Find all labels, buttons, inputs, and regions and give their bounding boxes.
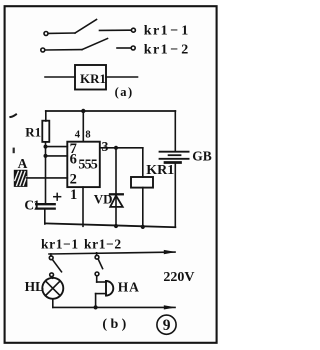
wire A to pin 2 bbox=[27, 177, 68, 179]
svg-text:(b): (b) bbox=[102, 317, 129, 332]
svg-text:8: 8 bbox=[85, 129, 90, 140]
wire pin 3 bbox=[100, 147, 143, 149]
resistor R1 bbox=[42, 111, 49, 204]
svg-text:6: 6 bbox=[70, 151, 77, 167]
svg-text:−1: −1 bbox=[170, 24, 191, 39]
top supply rail bbox=[46, 110, 176, 112]
figure number 9 circled bbox=[157, 315, 176, 334]
scan speck marks on left edge bbox=[10, 114, 16, 153]
junction dot bell/neutral bbox=[94, 305, 98, 309]
diode VD bbox=[110, 148, 123, 227]
bell HA bbox=[96, 281, 114, 307]
junction dot top rail / pin4-8 bbox=[81, 109, 85, 113]
op-amp/timer IC 555 box bbox=[67, 142, 100, 187]
svg-text:C1: C1 bbox=[24, 198, 40, 213]
svg-text:kr1: kr1 bbox=[144, 43, 169, 58]
svg-text:3: 3 bbox=[102, 139, 109, 154]
wire pins 4,8 to top rail bbox=[82, 111, 84, 142]
touch plate A bbox=[15, 171, 27, 187]
wire to pin 7 bbox=[46, 146, 68, 148]
wire to pin 6 bbox=[46, 155, 68, 157]
switch contact kr1-2 (section a) bbox=[41, 39, 135, 53]
svg-text:kr1−1: kr1−1 bbox=[41, 237, 79, 252]
svg-text:KR1: KR1 bbox=[80, 71, 106, 86]
lamp HL bbox=[42, 278, 63, 308]
svg-text:kr1−2: kr1−2 bbox=[84, 237, 122, 252]
svg-text:kr1: kr1 bbox=[144, 24, 169, 39]
capacitor C1 bbox=[36, 204, 55, 224]
svg-text:A: A bbox=[18, 156, 28, 171]
bottom rail bbox=[45, 223, 175, 227]
border frame bbox=[5, 6, 217, 343]
junction node pin6 bbox=[44, 154, 48, 158]
svg-text:−2: −2 bbox=[170, 43, 191, 58]
junction dot relay/bottom rail bbox=[141, 225, 145, 229]
svg-text:VD: VD bbox=[94, 192, 113, 207]
svg-text:(a): (a) bbox=[115, 85, 134, 99]
relay coil KR1 (middle) bbox=[131, 177, 153, 188]
svg-text:2: 2 bbox=[70, 172, 77, 188]
svg-text:4: 4 bbox=[75, 129, 81, 140]
junction node pin7 bbox=[44, 145, 48, 149]
battery GB bbox=[160, 111, 189, 227]
neutral line N with arrow bbox=[53, 305, 176, 309]
wire relay to bottom rail bbox=[142, 188, 144, 228]
svg-text:GB: GB bbox=[192, 148, 212, 163]
switch kr1-2 (section b) bbox=[95, 253, 103, 282]
svg-text:555: 555 bbox=[78, 158, 97, 173]
svg-text:HL: HL bbox=[25, 279, 45, 294]
switch contact kr1-1 (section a) bbox=[44, 20, 135, 36]
junction dot diode/bottom rail bbox=[114, 224, 118, 228]
junction dot pin3/diode bbox=[114, 146, 118, 150]
svg-text:9: 9 bbox=[163, 317, 171, 334]
svg-text:HA: HA bbox=[118, 280, 140, 295]
wire down to relay bbox=[142, 148, 144, 177]
relay coil box KR1 (section a) bbox=[45, 65, 138, 90]
supply line L with arrow bbox=[49, 250, 176, 254]
svg-text:220V: 220V bbox=[163, 270, 194, 285]
switch kr1-1 (section b) bbox=[49, 254, 61, 278]
svg-text:KR1: KR1 bbox=[146, 163, 174, 178]
svg-text:R1: R1 bbox=[25, 124, 41, 139]
wire pin 1 to bottom rail bbox=[82, 187, 84, 226]
svg-text:1: 1 bbox=[70, 187, 77, 203]
plus sign of C1 bbox=[54, 193, 61, 200]
